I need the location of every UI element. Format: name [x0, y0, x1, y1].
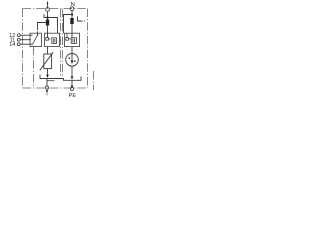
FM terminal 14: [17, 43, 20, 46]
S1 indicator: [52, 38, 57, 44]
switch box S2: [65, 33, 80, 46]
FM terminal 12: [17, 34, 20, 37]
linkage N right: [78, 17, 83, 22]
S2 entry stub: [66, 33, 68, 37]
bottom terminal circle: [45, 86, 48, 89]
enclosure border left: [22, 9, 24, 89]
svg-text:PE: PE: [69, 93, 77, 99]
wire spark gap down: [71, 66, 73, 76]
terminal L circle: [46, 8, 50, 12]
node L junction: [46, 16, 48, 18]
node N junction: [71, 13, 73, 15]
wire to bottom terminal: [46, 79, 48, 86]
wire PE drop: [71, 80, 73, 86]
enclosure border bottom: [23, 87, 88, 89]
FM switch arm: [32, 34, 38, 44]
wire L down: [47, 11, 49, 37]
inner boundary V1: [33, 47, 35, 88]
enclosure border top: [23, 8, 88, 10]
S2 indicator: [71, 38, 76, 44]
PE bus: [40, 75, 81, 81]
node PE junction: [71, 85, 73, 87]
S2 contact: [66, 38, 69, 41]
arrow to PE bus: [46, 75, 49, 78]
wire varistor down: [47, 69, 49, 75]
terminal N circle: [70, 7, 74, 11]
varistor MOV: [44, 54, 52, 69]
wire to varistor: [47, 47, 49, 54]
disconnector D1: [46, 20, 49, 26]
enclosure border right: [87, 9, 89, 89]
svg-text:N: N: [71, 2, 75, 8]
wire L tap: [44, 14, 58, 33]
S1 contact: [46, 38, 49, 41]
arrow to PE bus 2: [71, 76, 74, 80]
inner boundary V2: [60, 9, 62, 77]
stub segment: [47, 80, 55, 82]
inner boundary V3: [62, 9, 64, 77]
wire N tap: [64, 15, 73, 34]
bottom arrow: [46, 90, 48, 93]
svg-text:14: 14: [9, 42, 15, 48]
switch box S1: [45, 33, 60, 46]
terminal L arrow: [47, 3, 49, 8]
wire to spark gap: [71, 47, 73, 54]
terminal PE circle: [70, 87, 73, 90]
disconnector D2: [70, 18, 73, 24]
spark gap GDT: [66, 54, 79, 67]
outer boundary V4: [93, 71, 95, 90]
FM contact box: [30, 33, 42, 46]
FM terminal 11: [17, 38, 20, 41]
linkage to FM: [38, 23, 46, 29]
wire N down: [71, 11, 73, 38]
